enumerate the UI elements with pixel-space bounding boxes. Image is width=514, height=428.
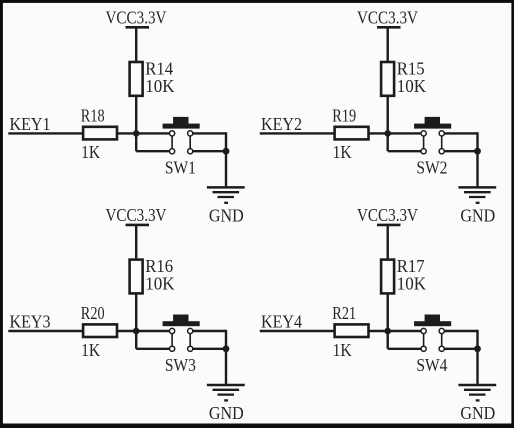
svg-text:KEY2: KEY2 <box>261 114 302 134</box>
wire: SW2 pin 4 to ground node <box>444 150 478 152</box>
junction node: SW2 to GND <box>474 148 481 155</box>
svg-text:VCC3.3V: VCC3.3V <box>106 7 167 27</box>
wire: ground rail vertical <box>476 330 478 349</box>
power flag VCC3.3V (KEY4 pull-up supply) <box>357 205 418 225</box>
switch SW4 button plunger <box>425 315 440 322</box>
wire: ground rail vertical <box>476 132 478 151</box>
junction node: R18/R14/SW1 <box>133 130 140 137</box>
svg-text:GND: GND <box>209 403 244 423</box>
wire: SW1 pin 4 to ground node <box>192 150 226 152</box>
switch SW1 right pole link <box>189 133 191 151</box>
wire: node to ground symbol <box>225 349 227 385</box>
wire: VCC3.3V bar to R14 pin 1 <box>135 27 137 62</box>
switch SW3 left pole link <box>171 331 173 349</box>
wire: to SW1 pin 2 <box>136 150 170 152</box>
switch SW2 pin 4 <box>439 149 444 154</box>
wire: R21 pin 2 to node and SW4 pin 1 <box>369 330 422 332</box>
switch SW4 pin 2 <box>421 346 426 351</box>
switch SW3 button plunger <box>173 315 188 322</box>
svg-text:KEY1: KEY1 <box>10 114 51 134</box>
wire: R14 pin 2 to node KEY1 <box>135 96 137 134</box>
switch SW2 pin 1 <box>421 131 426 136</box>
svg-text:SW1: SW1 <box>165 157 196 177</box>
wire: SW4 pin 4 to ground node <box>444 348 478 350</box>
switch SW2 left pole link <box>423 133 425 151</box>
wire: R15 pin 2 to node KEY2 <box>387 96 389 134</box>
wire: VCC3.3V bar to R16 pin 1 <box>135 225 137 260</box>
svg-text:R18: R18 <box>81 106 105 126</box>
junction node: SW1 to GND <box>223 148 230 155</box>
svg-text:SW2: SW2 <box>416 157 447 177</box>
wire: node down <box>387 132 389 151</box>
wire: node down <box>387 330 389 349</box>
svg-text:VCC3.3V: VCC3.3V <box>106 205 167 225</box>
wire: VCC3.3V bar to R15 pin 1 <box>387 27 389 62</box>
wire: node down <box>135 330 137 349</box>
wire: SW3 pin 4 to ground node <box>192 348 226 350</box>
switch SW3 pin 1 <box>170 328 175 333</box>
switch SW3 button cap <box>163 321 200 326</box>
wire: SW4 pin 3 to ground rail <box>444 330 478 332</box>
svg-text:1K: 1K <box>81 142 100 162</box>
junction node: R19/R15/SW2 <box>384 130 391 137</box>
switch SW4 right pole link <box>441 331 443 349</box>
wire: node to ground symbol <box>476 349 478 385</box>
wire: R17 pin 2 to node KEY4 <box>387 293 389 331</box>
svg-text:KEY4: KEY4 <box>261 312 302 332</box>
svg-text:10K: 10K <box>145 76 174 96</box>
wire: node down <box>135 132 137 151</box>
wire: port KEY2 to R19 pin 1 <box>260 132 335 134</box>
wire: ground rail vertical <box>225 132 227 151</box>
resistor R19 (1K series) <box>335 127 369 140</box>
wire: to SW4 pin 2 <box>388 348 422 350</box>
wire: SW3 pin 3 to ground rail <box>192 330 226 332</box>
ground symbol (SW1 return) <box>207 187 245 202</box>
svg-text:KEY3: KEY3 <box>10 312 51 332</box>
svg-text:1K: 1K <box>333 142 352 162</box>
switch SW4 pin 3 <box>439 328 444 333</box>
switch SW2 pin 2 <box>421 149 426 154</box>
svg-text:R20: R20 <box>81 303 105 323</box>
power flag VCC3.3V (KEY1 pull-up supply) <box>106 7 167 27</box>
svg-text:GND: GND <box>460 206 495 226</box>
svg-text:SW4: SW4 <box>416 355 447 375</box>
wire: VCC3.3V bar to R17 pin 1 <box>387 225 389 260</box>
wire: SW1 pin 3 to ground rail <box>192 132 226 134</box>
switch SW2 button plunger <box>425 117 440 124</box>
switch SW3 pin 3 <box>188 328 193 333</box>
switch SW1 left pole link <box>171 133 173 151</box>
switch SW2 right pole link <box>441 133 443 151</box>
resistor R18 (1K series) <box>83 127 117 140</box>
switch SW1 button plunger <box>173 117 188 124</box>
power flag VCC3.3V (KEY3 pull-up supply) <box>106 205 167 225</box>
wire: R20 pin 2 to node and SW3 pin 1 <box>117 330 170 332</box>
svg-text:SW3: SW3 <box>165 355 196 375</box>
resistor R14 (10K pull-up) <box>130 62 143 96</box>
wire: to SW2 pin 2 <box>388 150 422 152</box>
switch SW4 pin 4 <box>439 346 444 351</box>
switch SW1 pin 1 <box>170 131 175 136</box>
border frame (decorative) <box>0 0 514 3</box>
svg-text:VCC3.3V: VCC3.3V <box>357 205 418 225</box>
switch SW3 right pole link <box>189 331 191 349</box>
junction node: SW3 to GND <box>223 345 230 352</box>
wire: port KEY1 to R18 pin 1 <box>8 132 83 134</box>
svg-text:10K: 10K <box>145 274 174 294</box>
wire: SW2 pin 3 to ground rail <box>444 132 478 134</box>
wire: node to ground symbol <box>476 151 478 187</box>
wire: port KEY4 to R21 pin 1 <box>260 330 335 332</box>
switch SW1 pin 3 <box>188 131 193 136</box>
resistor R15 (10K pull-up) <box>381 62 394 96</box>
switch SW1 pin 2 <box>170 149 175 154</box>
ground symbol (SW2 return) <box>458 187 496 202</box>
switch SW3 pin 4 <box>188 346 193 351</box>
wire: R18 pin 2 to node and SW1 pin 1 <box>117 132 170 134</box>
ground symbol (SW3 return) <box>207 385 245 400</box>
wire: R16 pin 2 to node KEY3 <box>135 293 137 331</box>
ground symbol (SW4 return) <box>458 385 496 400</box>
svg-text:GND: GND <box>209 206 244 226</box>
switch SW3 pin 2 <box>170 346 175 351</box>
switch SW2 button cap <box>414 124 451 129</box>
junction node: R21/R17/SW4 <box>384 328 391 335</box>
junction node: R20/R16/SW3 <box>133 328 140 335</box>
power flag VCC3.3V (KEY2 pull-up supply) <box>357 7 418 27</box>
svg-text:1K: 1K <box>81 340 100 360</box>
wire: node to ground symbol <box>225 151 227 187</box>
resistor R17 (10K pull-up) <box>381 260 394 294</box>
switch SW4 pin 1 <box>421 328 426 333</box>
svg-text:R19: R19 <box>332 106 356 126</box>
switch SW1 pin 4 <box>188 149 193 154</box>
switch SW4 button cap <box>414 321 451 326</box>
switch SW1 button cap <box>163 124 200 129</box>
svg-text:10K: 10K <box>397 274 426 294</box>
svg-text:VCC3.3V: VCC3.3V <box>357 7 418 27</box>
svg-text:GND: GND <box>460 403 495 423</box>
resistor R20 (1K series) <box>83 324 117 337</box>
switch SW2 pin 3 <box>439 131 444 136</box>
switch SW4 left pole link <box>423 331 425 349</box>
svg-text:10K: 10K <box>397 76 426 96</box>
junction node: SW4 to GND <box>474 345 481 352</box>
resistor R16 (10K pull-up) <box>130 260 143 294</box>
svg-text:R21: R21 <box>332 303 356 323</box>
svg-text:1K: 1K <box>333 340 352 360</box>
wire: port KEY3 to R20 pin 1 <box>8 330 83 332</box>
wire: to SW3 pin 2 <box>136 348 170 350</box>
wire: ground rail vertical <box>225 330 227 349</box>
wire: R19 pin 2 to node and SW2 pin 1 <box>369 132 422 134</box>
resistor R21 (1K series) <box>335 324 369 337</box>
